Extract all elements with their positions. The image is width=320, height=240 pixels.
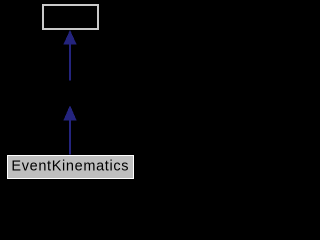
inheritance arrow 2 (lower) (63, 105, 76, 154)
inheritance arrow 1 (upper) (63, 30, 76, 81)
base class box (empty node) (43, 5, 98, 29)
svg-text:EventKinematics: EventKinematics (11, 159, 129, 175)
EventKinematics node box (8, 156, 134, 179)
